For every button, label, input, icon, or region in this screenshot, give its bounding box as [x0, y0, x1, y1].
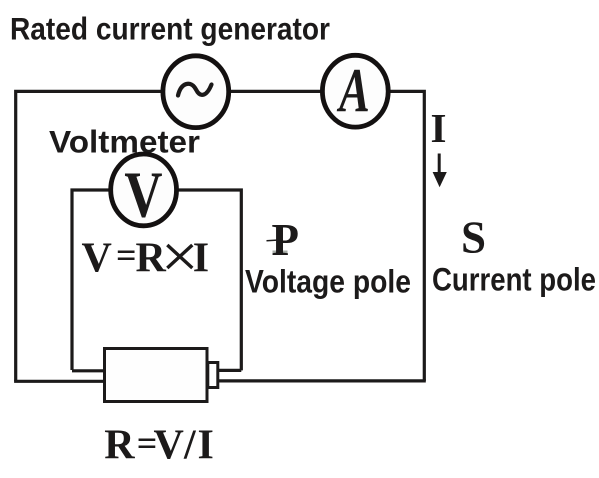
svg-text:=: = — [116, 235, 137, 275]
wire right vertical lower part — [423, 200, 426, 381]
wire inner top-right segment — [177, 190, 242, 370]
svg-text:V: V — [82, 235, 112, 281]
wire outer bottom-left horizontal — [16, 380, 105, 382]
svg-text:I: I — [431, 105, 447, 151]
svg-text:S: S — [461, 213, 486, 263]
wire top middle segment (between source and ammeter) — [229, 90, 322, 93]
svg-text:Voltage pole: Voltage pole — [245, 264, 411, 300]
svg-text:V: V — [154, 423, 184, 469]
formula R=V/I — [104, 423, 214, 469]
wire inner bottom-left horizontal — [72, 369, 105, 372]
svg-text:R: R — [136, 235, 167, 281]
svg-text:Current pole: Current pole — [432, 262, 596, 298]
svg-text:R: R — [104, 423, 135, 469]
wire inner bottom-right horizontal — [217, 369, 241, 372]
voltmeter V1 circle — [111, 154, 177, 226]
svg-text:A: A — [337, 55, 370, 125]
wire inner top-left segment — [72, 190, 111, 370]
ammeter A1 circle — [322, 55, 388, 127]
svg-text:/: / — [183, 423, 197, 469]
svg-text:Voltmeter: Voltmeter — [49, 124, 200, 160]
resistor R1 body — [105, 349, 208, 402]
node P (voltage pole marker) — [273, 251, 288, 256]
formula V=R*I — [82, 235, 210, 282]
AC sine symbol — [178, 84, 212, 96]
svg-text:V: V — [124, 158, 162, 231]
svg-text:Rated current generator: Rated current generator — [10, 11, 330, 47]
current direction arrow — [438, 154, 441, 174]
svg-text:I: I — [193, 235, 209, 281]
wire top-right segment with corner down — [387, 91, 424, 200]
AC source circle U1 — [163, 56, 229, 128]
wire top-left segment — [16, 91, 162, 190]
wire outer bottom-right horizontal — [217, 379, 426, 382]
wire left vertical lower part — [14, 190, 17, 381]
resistor R1 terminal tab — [208, 363, 218, 388]
svg-text:I: I — [198, 423, 214, 469]
